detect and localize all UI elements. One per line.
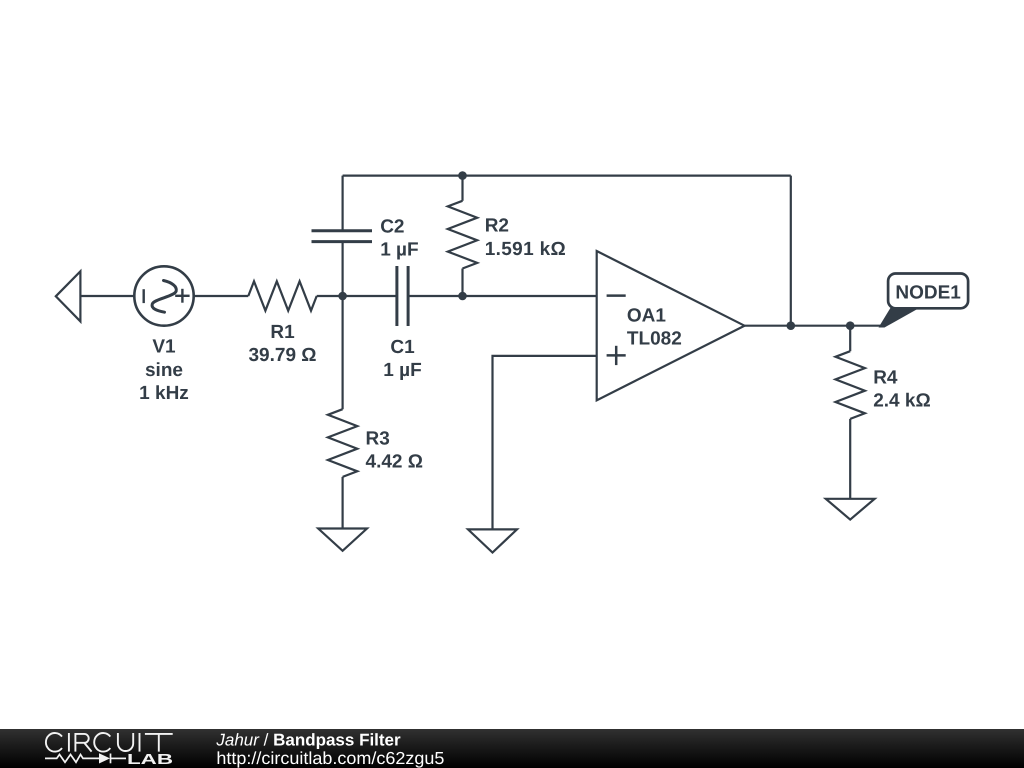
svg-text:sine: sine xyxy=(145,360,183,381)
svg-text:V1: V1 xyxy=(152,337,176,358)
svg-text:OA1: OA1 xyxy=(627,306,667,327)
svg-text:Jahur / Bandpass Filter: Jahur / Bandpass Filter xyxy=(215,731,401,750)
svg-text:C2: C2 xyxy=(380,217,404,238)
svg-text:1 µF: 1 µF xyxy=(380,240,418,261)
svg-text:R2: R2 xyxy=(485,216,509,237)
svg-text:39.79 Ω: 39.79 Ω xyxy=(248,345,316,366)
svg-text:2.4 kΩ: 2.4 kΩ xyxy=(873,391,931,412)
svg-text:NODE1: NODE1 xyxy=(895,282,961,303)
svg-text:C1: C1 xyxy=(390,337,415,358)
svg-text:R3: R3 xyxy=(366,429,390,450)
svg-text:1 kHz: 1 kHz xyxy=(139,383,189,404)
svg-text:TL082: TL082 xyxy=(627,329,682,350)
svg-text:http://circuitlab.com/c62zgu5: http://circuitlab.com/c62zgu5 xyxy=(216,748,444,768)
svg-text:1.591 kΩ: 1.591 kΩ xyxy=(485,239,566,260)
svg-text:R4: R4 xyxy=(873,367,898,388)
svg-text:LAB: LAB xyxy=(127,752,173,768)
svg-text:1 µF: 1 µF xyxy=(383,360,421,381)
svg-text:4.42 Ω: 4.42 Ω xyxy=(366,452,424,473)
svg-text:R1: R1 xyxy=(270,322,295,343)
